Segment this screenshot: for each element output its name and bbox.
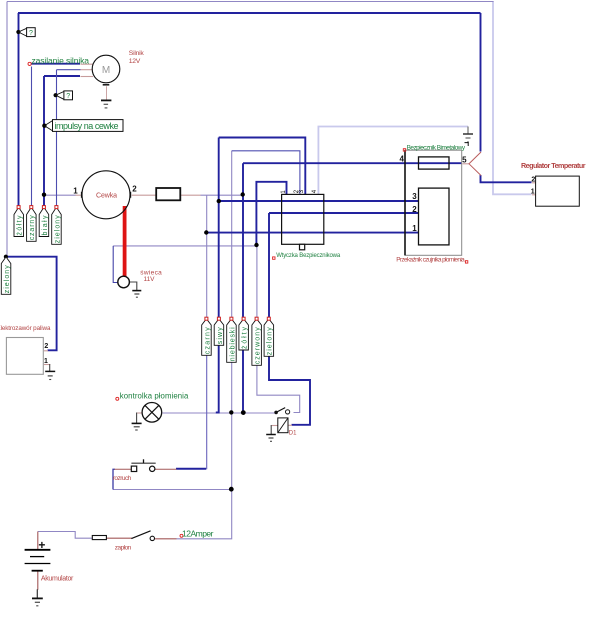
- svg-text:?: ?: [29, 30, 33, 37]
- svg-text:Akumulator: Akumulator: [41, 575, 74, 582]
- svg-text:2: 2: [132, 185, 137, 194]
- svg-text:D1: D1: [289, 431, 297, 437]
- svg-text:5: 5: [462, 155, 467, 164]
- svg-text:czarny: czarny: [29, 215, 36, 241]
- svg-text:2: 2: [44, 343, 48, 350]
- svg-text:11V: 11V: [144, 276, 156, 283]
- svg-text:zielony: zielony: [54, 215, 61, 244]
- svg-text:Silnik: Silnik: [129, 50, 145, 57]
- svg-text:Przekaźnik czujnika płomienia: Przekaźnik czujnika płomienia: [396, 257, 465, 264]
- svg-text:Regulator Temperatur: Regulator Temperatur: [521, 161, 586, 170]
- svg-text:3: 3: [412, 192, 417, 201]
- svg-text:12V: 12V: [129, 58, 141, 65]
- svg-text:M: M: [102, 65, 110, 76]
- svg-text:zasilanie silnika: zasilanie silnika: [32, 56, 90, 66]
- svg-text:1: 1: [531, 189, 535, 196]
- svg-text:1: 1: [412, 224, 417, 233]
- svg-text:impulsy na cewke: impulsy na cewke: [55, 121, 119, 131]
- svg-text:rozruch: rozruch: [113, 475, 132, 482]
- svg-text:niebieski: niebieski: [229, 327, 236, 361]
- svg-text:2: 2: [412, 205, 417, 214]
- svg-text:?: ?: [66, 93, 70, 100]
- svg-text:czerwony: czerwony: [255, 327, 262, 365]
- svg-text:+: +: [38, 538, 45, 552]
- svg-text:biały: biały: [42, 215, 49, 236]
- svg-text:Cewka: Cewka: [96, 192, 117, 199]
- svg-text:kontrolka płomienia: kontrolka płomienia: [120, 391, 189, 400]
- svg-text:1: 1: [73, 186, 78, 195]
- svg-text:1: 1: [44, 358, 48, 365]
- svg-text:zielony: zielony: [267, 327, 274, 356]
- svg-text:4: 4: [399, 155, 404, 164]
- svg-text:żółty: żółty: [17, 215, 24, 236]
- svg-text:Elektrozawór paliwa: Elektrozawór paliwa: [0, 325, 51, 332]
- svg-text:zapłon: zapłon: [115, 545, 132, 552]
- svg-text:siwy: siwy: [217, 327, 224, 345]
- svg-text:Bezpiecznik Bimetalowy: Bezpiecznik Bimetalowy: [407, 144, 466, 151]
- svg-text:zielony: zielony: [4, 265, 11, 294]
- svg-text:Wtyczka Bezpiecznikowa: Wtyczka Bezpiecznikowa: [276, 253, 341, 259]
- svg-text:żółty: żółty: [242, 327, 249, 350]
- svg-text:12Amper: 12Amper: [182, 529, 214, 539]
- svg-text:2: 2: [531, 176, 535, 183]
- svg-text:czarny: czarny: [204, 327, 211, 355]
